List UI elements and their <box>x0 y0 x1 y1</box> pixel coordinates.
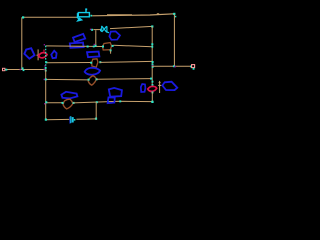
wire bowtie left stub <box>93 29 100 31</box>
transistor Q1 <box>77 9 93 20</box>
node junction (87.6,46.5) <box>87 46 89 48</box>
wire left-mid vertical tan x45.7 <box>45 69 47 119</box>
node top-left corner junction <box>22 16 24 18</box>
wire R1 bottom dangling stub <box>110 51 112 54</box>
resistor R1 <box>103 43 112 50</box>
node junction (152,61.9) <box>152 61 154 63</box>
wire bottom rail left segment <box>46 102 62 104</box>
wire left vertical <box>21 17 23 69</box>
current source V1 plus mark (dagger) <box>158 81 161 93</box>
wire row y79.3 right segment <box>96 78 151 81</box>
net label L7 <box>61 92 77 99</box>
node corner junction (152.4,101.8) <box>151 101 153 103</box>
wire bottom rail right segment <box>73 101 152 103</box>
node R4 left junction <box>62 102 64 104</box>
node junction (151.8,64.3) <box>152 64 154 66</box>
wire bottom row right of cap <box>76 118 96 120</box>
node purple pin dot above bowtie stub <box>90 29 91 30</box>
node junction wire end (190.9,66.4) <box>190 66 192 68</box>
wire mid-right vertical bus x152 <box>151 27 153 85</box>
net label L9 <box>141 84 146 92</box>
node junction (45.7,70.4) <box>45 70 47 72</box>
node junction (152.2,46.8) <box>151 46 153 48</box>
node purple dot (94.3,44.3) <box>94 44 95 45</box>
net label L1 <box>24 48 34 59</box>
node junction (120.2,101.3) <box>119 100 121 102</box>
wire row y79.3 left segment <box>46 78 88 81</box>
node purple dot (44.3,44.7) <box>44 44 45 45</box>
node purple dot (44.3,69.3) <box>44 69 45 70</box>
wire bottom row left of cap <box>46 118 70 120</box>
wire doubled segment on top wire <box>107 14 132 16</box>
net label L8 upper quad <box>109 88 122 97</box>
node corner junction (95.9,118.6) <box>95 118 97 120</box>
node T junction (95.5,46) <box>95 45 97 47</box>
node purple dot left of T junction (20.2,69.4) <box>20 69 21 70</box>
node junction below output pin <box>193 68 195 70</box>
node junction (152.6,66.8) <box>152 66 154 68</box>
net label L10 <box>162 82 177 90</box>
node junction left end y62 <box>45 61 47 63</box>
net label L8 lower quad <box>108 97 115 103</box>
node junction (173.9,66.2) <box>173 65 175 67</box>
node corner junction x152 <box>151 25 153 27</box>
voltage source V2 body (crimson eye) <box>39 53 48 58</box>
resistor R3 (diamond) <box>88 76 96 86</box>
wire top middle horizontal <box>92 14 174 16</box>
net label L6 <box>109 31 120 39</box>
node R2 left junction <box>90 62 92 64</box>
node corner junction (45.8,119.5) <box>45 119 47 121</box>
wire vertical x96.2 down-right loop <box>95 102 97 119</box>
pin IN (salmon square) <box>3 68 5 70</box>
node bowtie left junction <box>91 29 93 31</box>
node junction after input pin <box>5 69 7 71</box>
node junction (151,78.6) <box>150 78 152 80</box>
capacitor C1 <box>70 116 76 124</box>
net label L4 on wire <box>70 43 84 48</box>
node purple dot (44.6,103.7) <box>44 103 45 104</box>
node junction (152.4,92.4) <box>152 92 154 94</box>
node purple dot (45,65.8) <box>44 65 45 66</box>
wire row y45.4 right segment <box>114 45 153 46</box>
node R1 bottom junction <box>110 49 112 51</box>
net label L3 <box>73 34 85 42</box>
node junction at (22.3,68.5) <box>22 67 24 69</box>
node junction (45.7,79.4) <box>45 78 47 80</box>
wire below source vertical <box>151 92 153 102</box>
resistor R2 <box>92 59 98 67</box>
wire right vertical to output row <box>173 15 175 67</box>
net label L5 <box>85 68 101 75</box>
node junction (46.2,102.3) <box>45 101 47 103</box>
node junction (93.6,46.5) <box>93 46 95 48</box>
voltage source V2 plus mark (dagger) <box>37 49 40 60</box>
node junction (152.4,81.6) <box>152 81 154 83</box>
wire row y46 left segment <box>46 45 103 48</box>
node junction (96.7,102.2) <box>96 101 98 103</box>
wire top-left horizontal <box>23 16 77 18</box>
current source V1 tick below <box>150 91 152 93</box>
node purple dot (152.4,65.4) <box>152 65 153 66</box>
wire input rail y69.5 <box>5 69 46 71</box>
wire vertical from bowtie left down <box>95 30 97 46</box>
current source V1 body (crimson lens) <box>148 86 157 91</box>
node junction (152.2,44.3) <box>151 43 153 45</box>
voltage source V2 tick above <box>43 50 45 52</box>
node R1 right junction <box>112 45 114 47</box>
node junction at (23.2,70) <box>23 69 25 71</box>
node junction (45.6,67.8) <box>45 67 47 69</box>
resistor R4 (diamond) <box>63 99 73 109</box>
net label L11 <box>87 52 99 58</box>
wire row y62 left segment <box>46 62 91 64</box>
net label L2 <box>51 51 56 58</box>
wire dashed cyan vertical x45.7 <box>45 46 47 70</box>
capacitor X1 (bowtie symbol) <box>101 26 110 33</box>
pin OUT (salmon square) <box>192 65 195 68</box>
wire output row y66.2 <box>152 65 191 67</box>
node R3 left junction <box>88 79 90 81</box>
wire tick on top wire <box>157 13 159 15</box>
wire row y62 right segment <box>100 61 152 62</box>
node R4 right junction <box>73 102 75 104</box>
node top-right corner junction <box>173 13 175 15</box>
node R1 left junction <box>102 46 104 48</box>
node purple dot (44.3,79.4) <box>44 79 45 80</box>
node R3 right junction <box>96 78 98 80</box>
node tick below top-right corner <box>175 16 176 17</box>
wire bowtie right to corner <box>110 26 152 28</box>
node junction (108,101.7) <box>107 101 109 103</box>
node junction (152.4,84.9) <box>152 84 154 86</box>
node purple dot (175,66.5) <box>174 66 176 68</box>
node R2 right junction <box>99 61 101 63</box>
